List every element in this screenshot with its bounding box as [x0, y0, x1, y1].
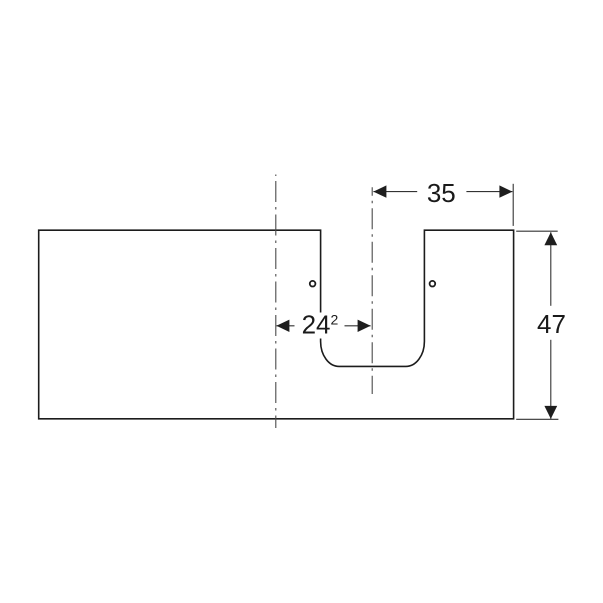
extension line top for dim 47	[516, 230, 558, 232]
arrow 47 top	[544, 232, 557, 245]
dim text 35 background	[417, 181, 466, 203]
extension line bottom for dim 47	[516, 418, 558, 420]
extension line vertical for dim 35	[512, 184, 514, 226]
arrow 35 right	[499, 185, 512, 197]
arrow 35 left	[373, 185, 386, 197]
arrow 47 bottom	[544, 406, 557, 419]
panel outline with U-shaped cutout	[39, 230, 514, 419]
centerline right (cutout axis)	[371, 187, 373, 394]
centerline left (basin axis)	[275, 175, 277, 429]
svg-text:35: 35	[427, 178, 456, 208]
dimension line 35	[373, 191, 512, 193]
dimension line 24	[276, 325, 370, 327]
dimension line 47	[550, 232, 552, 419]
dim text 24 background	[295, 313, 345, 339]
hole right	[430, 281, 436, 287]
dim text 47 background	[536, 306, 566, 340]
arrow 24 left	[276, 320, 289, 332]
svg-text:47: 47	[537, 309, 566, 339]
arrow 24 right	[358, 320, 371, 332]
hole left	[310, 281, 316, 287]
